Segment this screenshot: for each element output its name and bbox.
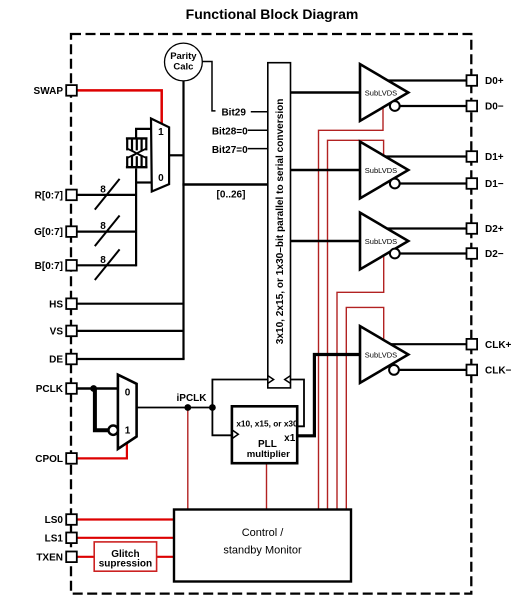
svg-text:Functional Block Diagram: Functional Block Diagram xyxy=(186,6,359,22)
wire B[0:7] bus xyxy=(77,264,137,266)
wire G[0:7] bus xyxy=(77,231,137,233)
bus width slash R xyxy=(95,179,120,210)
wire VS xyxy=(77,330,184,332)
svg-text:PCLK: PCLK xyxy=(36,384,64,395)
svg-text:CLK+: CLK+ xyxy=(485,340,512,351)
mux M2 (clock polarity mux) xyxy=(118,375,137,449)
wire R[0:7] bus xyxy=(77,194,137,196)
swap symbol top comb xyxy=(126,138,148,150)
serializer clock chevron right xyxy=(285,376,291,384)
serializer box U5 xyxy=(268,63,291,388)
wire glitch box to control (red) xyxy=(157,556,174,558)
wire CLK+ xyxy=(391,343,467,345)
swap symbol crossing X xyxy=(127,149,146,158)
svg-text:CLK−: CLK− xyxy=(485,366,512,377)
SubLVDS driver U4 (CLK) xyxy=(360,326,408,383)
wire DE xyxy=(77,358,185,360)
wire PLL monitor tap (red) xyxy=(266,463,268,509)
control standby monitor box xyxy=(174,510,351,582)
pin G[0:7] xyxy=(34,226,77,238)
svg-text:D0−: D0− xyxy=(485,102,504,113)
bus width slash G xyxy=(95,216,120,247)
svg-text:iPCLK: iPCLK xyxy=(177,393,208,404)
wire mux M1 input 1 xyxy=(136,129,151,139)
wire CPOL select (red) xyxy=(77,444,127,459)
pin SWAP xyxy=(34,85,77,97)
wire mux M1 output to node xyxy=(169,154,183,156)
wire serializer out to driver U1 xyxy=(291,91,361,94)
svg-text:Bit29: Bit29 xyxy=(221,108,246,119)
pin HS xyxy=(49,298,77,310)
wire D2- xyxy=(399,252,466,254)
wire TXEN to glitch box (red) xyxy=(77,556,95,558)
wire iPCLK down into PLL xyxy=(212,408,232,436)
parity calculator circle xyxy=(165,43,203,81)
SubLVDS driver U2 (D1) xyxy=(360,142,408,199)
wire [0..26] data bus into serializer xyxy=(182,183,267,185)
wire mux M1 input 0 xyxy=(136,181,152,183)
pin LS0 xyxy=(45,514,77,526)
wire D0+ xyxy=(388,79,467,81)
pin D2+ xyxy=(467,223,504,235)
pin CPOL xyxy=(35,453,77,465)
SubLVDS driver U3 (D2) xyxy=(360,213,408,270)
svg-text:Bit28=0: Bit28=0 xyxy=(212,126,248,137)
pin R[0:7] xyxy=(35,190,77,202)
wire PLL serial clock to serializer xyxy=(291,380,305,427)
svg-text:Parity: Parity xyxy=(170,51,197,62)
svg-text:HS: HS xyxy=(49,299,63,310)
PLL multiplier box xyxy=(232,406,298,463)
wire D1+ xyxy=(385,155,466,157)
wire PCLK into mux M2 xyxy=(77,387,119,389)
svg-text:SubLVDS: SubLVDS xyxy=(365,89,397,98)
inverter bubble on mux M2 input 1 xyxy=(109,426,118,435)
wire PCLK inverted path (thick) xyxy=(95,389,109,431)
wire Bit28 into serializer xyxy=(248,129,268,131)
wire Bit27 into serializer xyxy=(248,148,268,150)
pin LS1 xyxy=(45,533,77,545)
svg-text:8: 8 xyxy=(100,255,106,266)
svg-text:multiplier: multiplier xyxy=(247,449,290,460)
svg-text:B[0:7]: B[0:7] xyxy=(35,261,63,272)
svg-text:1: 1 xyxy=(158,127,164,138)
svg-text:3x10, 2x15, or 1x30–bit parall: 3x10, 2x15, or 1x30–bit parallel to seri… xyxy=(275,99,286,345)
svg-text:D1+: D1+ xyxy=(485,152,504,163)
svg-text:SWAP: SWAP xyxy=(34,86,64,97)
serializer clock chevron left xyxy=(268,376,274,384)
chip boundary (dashed border) xyxy=(71,34,471,594)
glitch suppression box xyxy=(94,542,156,571)
swap symbol bottom comb xyxy=(126,156,148,167)
wire RGB vertical bus xyxy=(135,169,137,267)
SubLVDS driver U1 (D0) xyxy=(360,64,408,121)
svg-text:8: 8 xyxy=(100,221,106,232)
svg-text:8: 8 xyxy=(100,185,106,196)
bus width slash B xyxy=(95,249,120,280)
svg-text:D0+: D0+ xyxy=(485,76,504,87)
pin D0- xyxy=(467,101,504,113)
wire Bit29 into serializer xyxy=(251,111,268,113)
junction iPCLK node A xyxy=(184,404,191,411)
pin TXEN xyxy=(36,552,76,564)
inverter bubble U2 xyxy=(390,179,400,189)
junction PCLK node xyxy=(90,385,97,392)
svg-text:Bit27=0: Bit27=0 xyxy=(212,145,248,156)
wire parity/data vertical line xyxy=(182,81,184,359)
svg-text:0: 0 xyxy=(125,387,131,398)
wire LS0 (red) xyxy=(77,518,175,520)
pin VS xyxy=(50,326,77,338)
svg-text:G[0:7]: G[0:7] xyxy=(34,227,63,238)
wire D2+ xyxy=(387,227,467,229)
inverter bubble U1 xyxy=(390,101,400,111)
svg-text:TXEN: TXEN xyxy=(36,552,63,563)
wire standby U3 (red) xyxy=(337,255,384,509)
svg-text:0: 0 xyxy=(158,173,164,184)
wire D0- xyxy=(399,105,466,107)
wire CLK- xyxy=(399,369,467,371)
wire serializer out to driver U2 xyxy=(291,169,361,172)
svg-text:standby Monitor: standby Monitor xyxy=(223,545,302,557)
inverter bubble U4 xyxy=(389,365,399,375)
svg-text:LS0: LS0 xyxy=(45,515,64,526)
wire iPCLK monitor tap (red) xyxy=(187,408,189,510)
inverter bubble U3 xyxy=(390,249,400,259)
wire HS xyxy=(77,303,184,305)
svg-text:x10, x15, or x30: x10, x15, or x30 xyxy=(236,418,298,428)
wire PLL x1 output to CLK driver (thick) xyxy=(297,355,360,436)
wire parity calc to Bit29 xyxy=(203,62,216,111)
wire D1- xyxy=(399,182,466,184)
svg-text:D1−: D1− xyxy=(485,179,504,190)
svg-text:Control /: Control / xyxy=(242,527,285,539)
svg-text:SubLVDS: SubLVDS xyxy=(365,237,397,246)
pin D1- xyxy=(467,178,504,190)
pin DE xyxy=(49,354,77,366)
svg-text:SubLVDS: SubLVDS xyxy=(365,351,397,360)
wire standby U2 (red) xyxy=(328,140,384,509)
svg-text:D2−: D2− xyxy=(485,249,504,260)
wire LS1 (red) xyxy=(77,537,175,539)
svg-text:1: 1 xyxy=(125,426,131,437)
svg-text:CPOL: CPOL xyxy=(35,454,63,465)
wire serializer out to driver U3 xyxy=(291,240,361,243)
wire SWAP select (red) xyxy=(77,90,162,123)
pin D1+ xyxy=(467,151,504,163)
wire iPCLK up to serializer clock xyxy=(212,380,267,408)
svg-text:x1: x1 xyxy=(284,433,296,444)
pin D2- xyxy=(467,248,504,260)
svg-text:R[0:7]: R[0:7] xyxy=(35,191,63,202)
svg-text:DE: DE xyxy=(49,355,63,366)
pin D0+ xyxy=(467,75,504,87)
svg-text:supression: supression xyxy=(99,559,152,570)
mux M1 (data swap mux) xyxy=(151,119,169,192)
junction iPCLK node B xyxy=(209,404,216,411)
wire standby U4 (red) xyxy=(346,307,383,509)
svg-text:Calc: Calc xyxy=(173,62,193,73)
wire standby U1 (red) xyxy=(319,107,384,509)
pin CLK+ xyxy=(467,339,512,351)
svg-text:SubLVDS: SubLVDS xyxy=(365,166,397,175)
pin B[0:7] xyxy=(35,260,77,272)
pin PCLK xyxy=(36,383,77,395)
wire iPCLK from mux M2 output xyxy=(137,407,213,409)
pin CLK- xyxy=(467,365,512,377)
svg-text:VS: VS xyxy=(50,327,64,338)
svg-text:LS1: LS1 xyxy=(45,533,64,544)
svg-text:[0..26]: [0..26] xyxy=(217,189,246,200)
svg-text:D2+: D2+ xyxy=(485,224,504,235)
